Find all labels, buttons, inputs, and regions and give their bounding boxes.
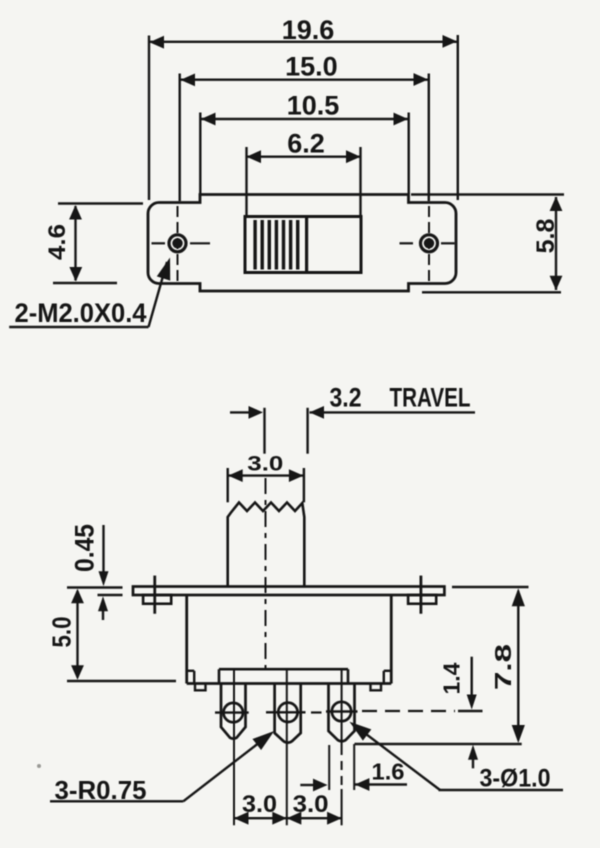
- svg-text:4.6: 4.6: [44, 224, 71, 260]
- pin 2 hole: [266, 703, 306, 722]
- slider actuator hatched: [255, 218, 307, 271]
- dimension 6.2: [247, 128, 361, 216]
- dimension 1.6: [300, 744, 407, 791]
- dimension 19.6: [149, 15, 458, 200]
- knob front view: [228, 503, 305, 587]
- slider knob opening: [245, 217, 361, 273]
- svg-text:5.0: 5.0: [47, 617, 77, 648]
- dimension 3.2 TRAVEL: [230, 383, 475, 454]
- svg-text:15.0: 15.0: [285, 52, 338, 82]
- dimension 3.0 knob: [228, 452, 304, 502]
- dimension 3.0 pitch left: [234, 791, 287, 825]
- switch body front: [187, 595, 392, 690]
- top view switch body outline: [148, 195, 456, 292]
- svg-text:19.6: 19.6: [282, 15, 335, 45]
- screw hole right: [421, 235, 438, 252]
- right hole centerlines: [400, 206, 455, 281]
- svg-text:3-Ø1.0: 3-Ø1.0: [480, 765, 551, 793]
- hole axis dashed: [311, 711, 483, 713]
- dimension 7.8: [355, 587, 529, 744]
- pin 2: [275, 684, 301, 743]
- svg-text:TRAVEL: TRAVEL: [390, 383, 471, 413]
- dimension 0.45: [67, 524, 123, 620]
- svg-text:1.6: 1.6: [372, 759, 405, 785]
- svg-text:10.5: 10.5: [287, 90, 340, 120]
- label 2-M2.0X0.4: [9, 258, 170, 329]
- left mounting tab: [143, 576, 171, 614]
- svg-text:2-M2.0X0.4: 2-M2.0X0.4: [15, 298, 147, 328]
- pin 3: [329, 684, 355, 742]
- left hole centerlines: [152, 206, 211, 281]
- dimension 1.4: [439, 657, 479, 769]
- knob centerline: [265, 478, 267, 668]
- label 3-R0.75: [50, 731, 274, 805]
- svg-text:3.0: 3.0: [242, 791, 277, 818]
- pin 1 hole: [215, 703, 249, 722]
- svg-text:3.0: 3.0: [293, 791, 329, 818]
- label 3-Ø1.0: [350, 722, 564, 793]
- pin 3 hole: [326, 702, 358, 721]
- terminal base block: [219, 669, 348, 683]
- pin pitch extension lines: [234, 670, 342, 825]
- dimension 10.5: [200, 90, 408, 194]
- dimension 4.6: [44, 204, 143, 284]
- svg-text:5.8: 5.8: [532, 219, 560, 254]
- svg-text:0.45: 0.45: [70, 524, 100, 572]
- dimension 5.8: [411, 195, 564, 293]
- svg-text:3.2: 3.2: [330, 383, 362, 413]
- svg-text:6.2: 6.2: [287, 128, 325, 158]
- dimension 3.0 pitch right: [287, 791, 342, 825]
- pin 1: [221, 684, 246, 739]
- mounting flange: [133, 587, 444, 596]
- right mounting tab: [408, 576, 436, 614]
- screw hole left: [169, 235, 186, 252]
- svg-text:3.0: 3.0: [247, 452, 283, 475]
- svg-text:7.8: 7.8: [490, 644, 516, 690]
- paper speck: [37, 764, 41, 768]
- svg-text:1.4: 1.4: [439, 662, 465, 694]
- dimension 5.0: [47, 589, 177, 681]
- dimension 15.0: [180, 52, 429, 201]
